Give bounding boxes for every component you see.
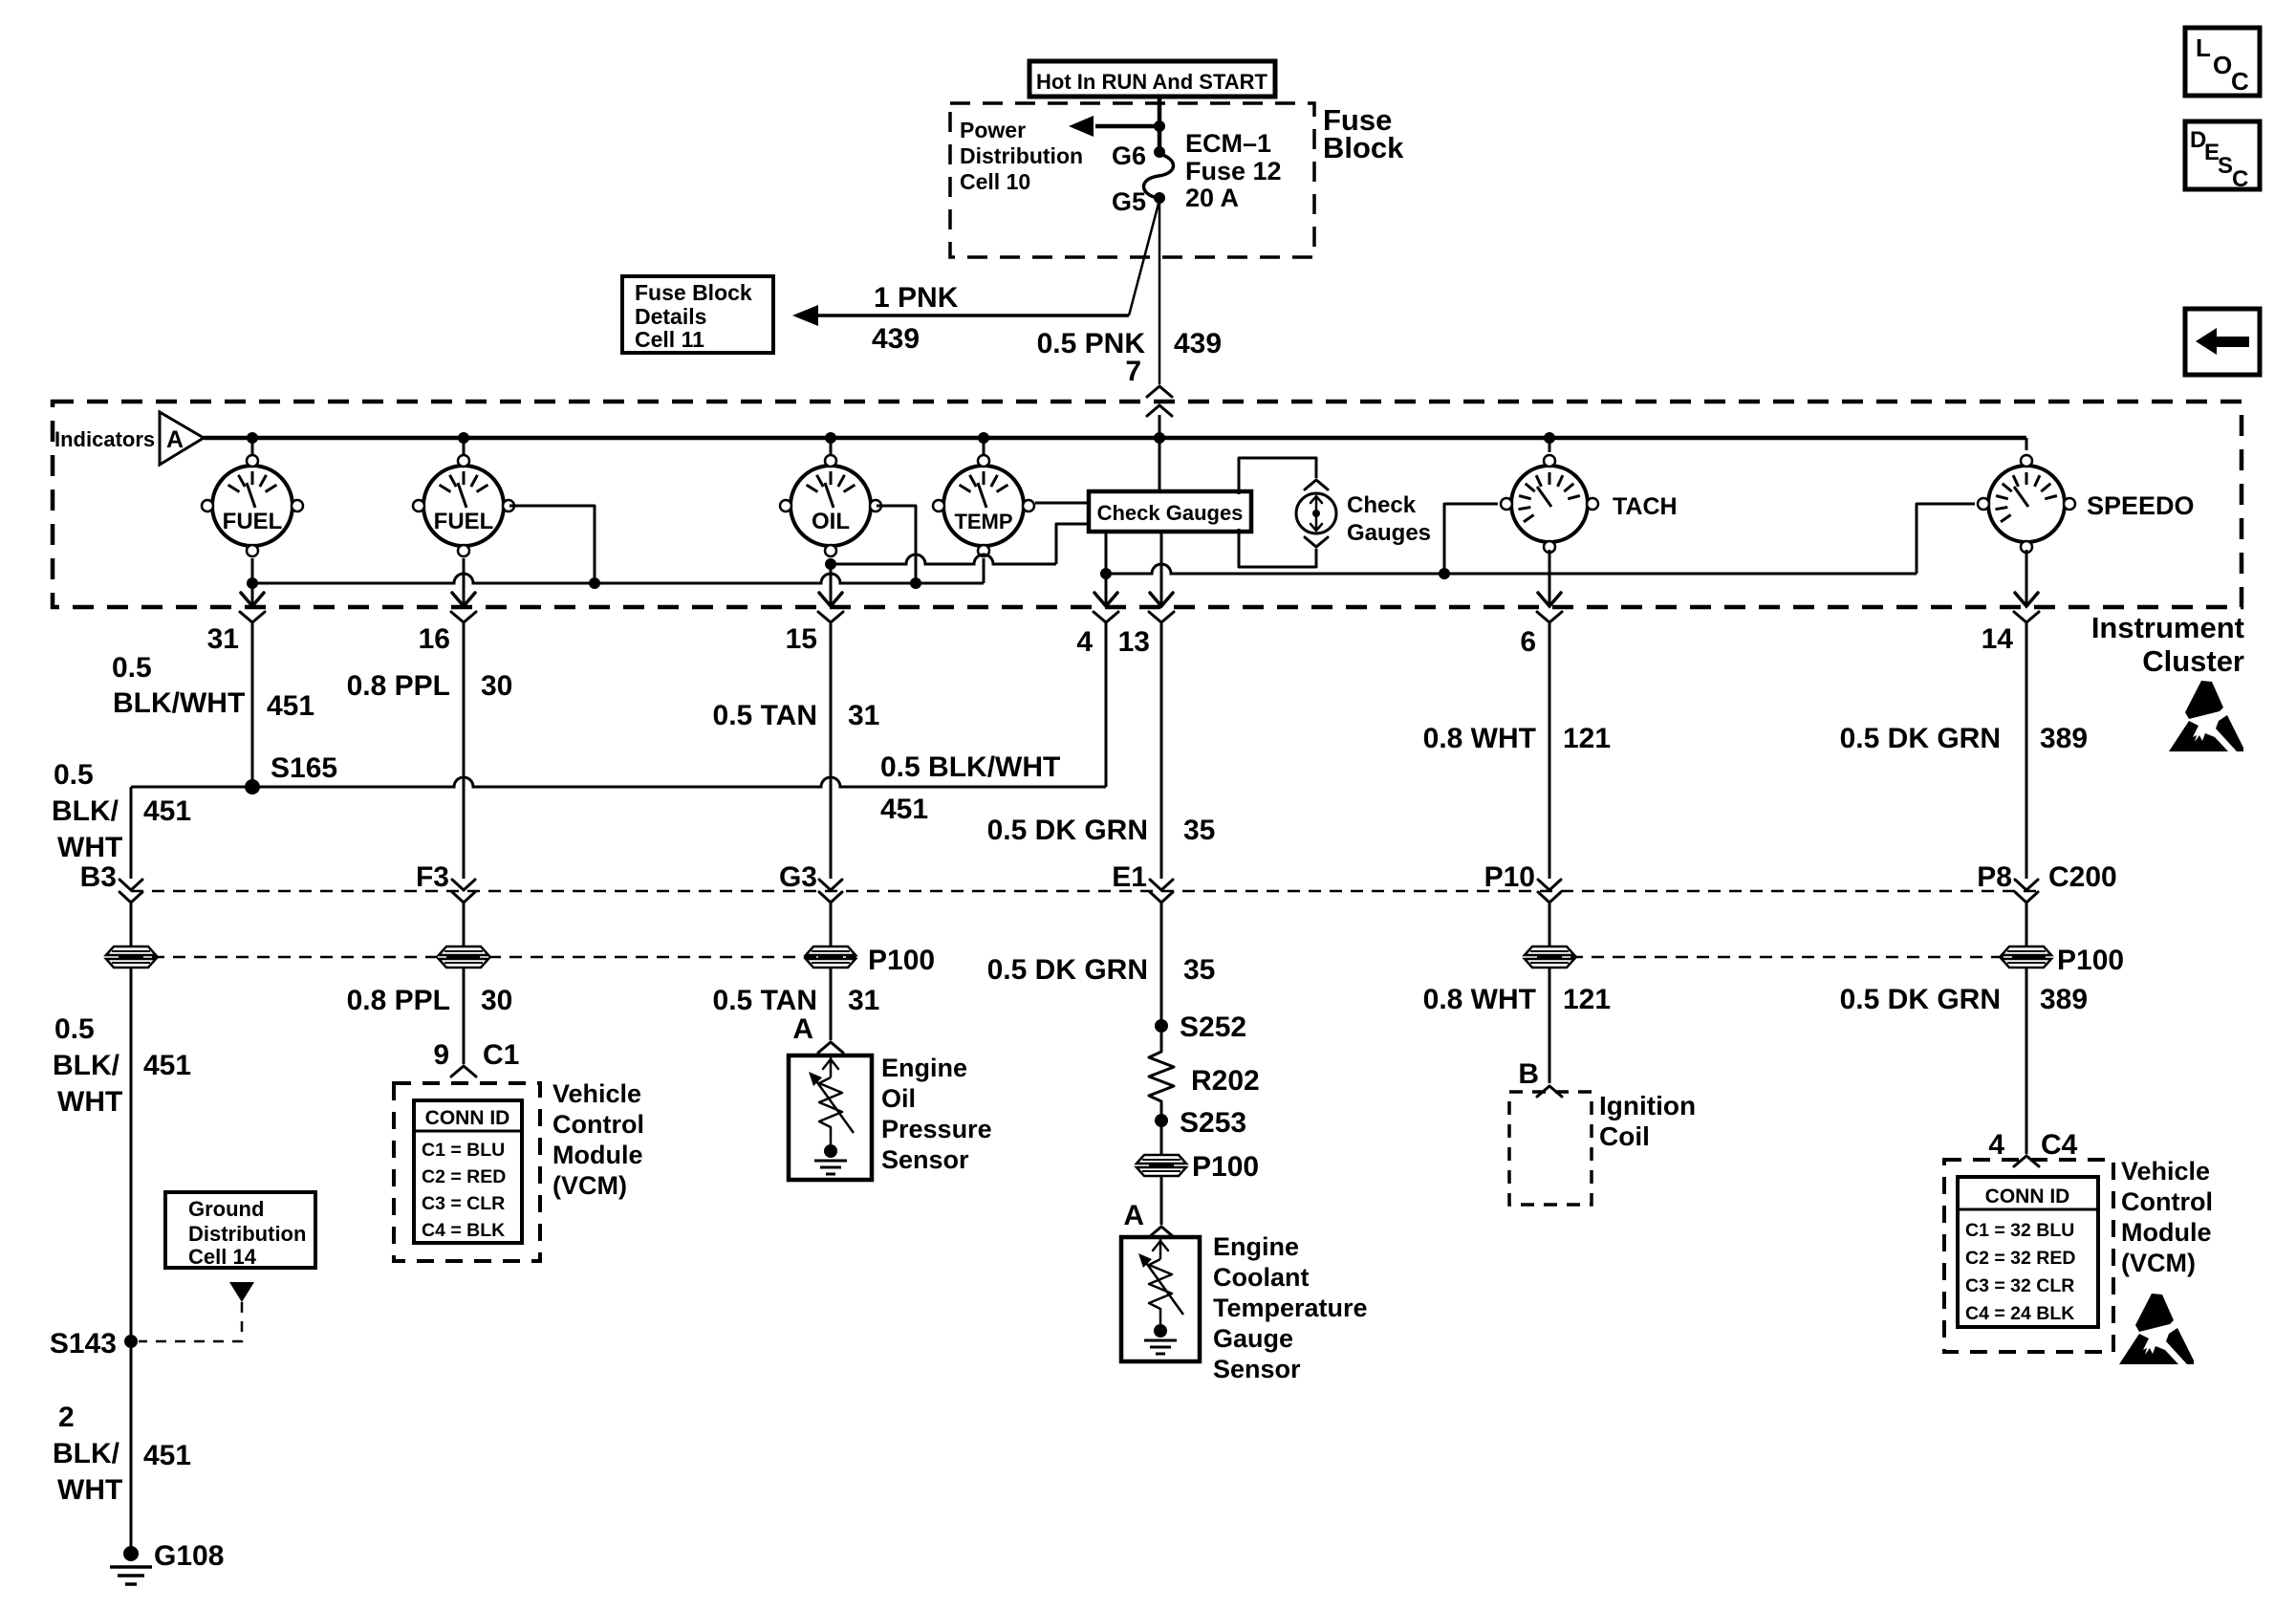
wire stub bus to TACH [1549,438,1551,452]
chevron into oil sensor [818,1042,843,1053]
icon ESD warning (VCM) [2119,1294,2194,1364]
svg-text:E1: E1 [1112,861,1147,893]
pin 4 exit [1076,593,1118,658]
connector C200 pin F3 [452,880,475,903]
svg-text:0.5 TAN: 0.5 TAN [713,700,817,731]
label Check Gauges (lamp) [1347,492,1431,546]
svg-text:C3 = 32 CLR: C3 = 32 CLR [1965,1275,2074,1296]
svg-text:Ground: Ground [188,1197,264,1221]
resistor R202 [1149,1048,1260,1105]
wire hot feed into fuse block [1158,96,1162,152]
label E1 [1112,861,1147,893]
connector C200 pin G3 [819,880,842,903]
wire TACH left stub [1444,504,1498,574]
svg-text:WHT: WHT [57,1086,122,1118]
chevron into VCM C1 [451,1066,476,1077]
wire pin31 to splice [251,623,254,787]
svg-text:G6: G6 [1112,141,1146,170]
label BLK/ (B3 lower) [53,1050,120,1081]
label terminal B (ignition coil) [1518,1058,1539,1090]
instrument cluster dashed outline [53,402,2242,607]
wire check gauges return bus (right) [1106,564,1917,574]
node bus junction TEMP [978,432,989,444]
svg-text:0.5 DK GRN: 0.5 DK GRN [987,815,1148,846]
svg-text:Gauge: Gauge [1213,1324,1293,1353]
node right bus TACH drop [1439,568,1450,579]
label pin 7 [1125,356,1141,387]
svg-text:P8: P8 [1977,861,2012,893]
svg-text:C2 = RED: C2 = RED [422,1166,506,1187]
svg-text:S253: S253 [1180,1107,1246,1139]
chevron lamp bottom [1305,537,1328,547]
connector P100 at B3 column [106,946,156,968]
label 0.5 TAN (upper) [713,700,817,731]
wire pin16 column upper [463,623,466,879]
svg-text:Power: Power [960,118,1026,142]
sensor box engine coolant temperature [1121,1237,1200,1361]
svg-text:Check: Check [1347,492,1417,518]
svg-text:0.8 PPL: 0.8 PPL [347,985,450,1016]
gauge TEMP [933,455,1034,556]
svg-text:35: 35 [1183,815,1215,846]
svg-text:4: 4 [1988,1129,2004,1161]
label 439 (1 PNK) [872,323,920,355]
connector C200 pin E1 [1150,880,1173,903]
node splice S165 [245,752,337,794]
connector P100 at F3 column [439,946,488,968]
svg-text:Block: Block [1323,131,1404,164]
label 0.5 DK GRN (upper P8) [1840,723,2001,754]
svg-text:Instrument: Instrument [2091,611,2244,644]
svg-text:TACH: TACH [1613,493,1678,520]
svg-text:0.5: 0.5 [54,759,94,791]
svg-text:Module: Module [2121,1218,2212,1247]
label terminal A (oil sensor) [792,1013,813,1045]
svg-text:30: 30 [481,985,512,1016]
label 0.5 (B3 lower) [54,1013,95,1045]
svg-text:0.8 WHT: 0.8 WHT [1423,723,1536,754]
label 30 (upper) [481,670,512,702]
connector C200 pin P10 [1538,880,1561,903]
node return bus FUEL1 [247,577,258,589]
wire check gauges lamp bracket top [1239,458,1316,494]
connector C200 dashed row [131,890,2037,893]
label Ignition Coil [1599,1091,1696,1151]
ground (oil sensor) [814,1144,847,1174]
dashed link to S143 [139,1302,242,1341]
svg-text:Sensor: Sensor [1213,1355,1301,1383]
node bus junction FUEL2 [458,432,469,444]
svg-text:Gauges: Gauges [1347,520,1431,546]
label 451 (left drop) [143,795,191,827]
label Vehicle Control Module VCM (left) [552,1079,644,1200]
wire check gauges lamp bracket bottom [1239,529,1316,567]
wire stub bus to FUEL2 [463,438,466,455]
svg-text:Module: Module [552,1141,643,1169]
svg-text:L: L [2196,33,2211,62]
label 0.8 PPL (upper) [347,670,450,702]
svg-text:TEMP: TEMP [954,510,1012,533]
node splice S252 [1155,1012,1246,1043]
wire gauge return bus (left) [252,558,984,583]
label 35 (lower E1) [1183,954,1215,986]
connector P100 at P8 column [2002,945,2124,976]
svg-text:0.5 DK GRN: 0.5 DK GRN [1840,723,2001,754]
icon box DESC [2185,121,2260,192]
label ECM-1 Fuse 12 20 A [1185,129,1282,212]
svg-text:S165: S165 [271,752,337,784]
label Engine Oil Pressure Sensor [881,1054,992,1174]
label terminal A (coolant sensor) [1123,1200,1144,1231]
label 389 (upper P8) [2040,723,2088,754]
svg-text:0.5 BLK/WHT: 0.5 BLK/WHT [880,751,1060,783]
svg-text:0.5: 0.5 [112,652,152,684]
node bus junction OIL [825,432,836,444]
connector C200 pin B3 [119,880,142,903]
label BLK/ (ground wire) [53,1438,120,1469]
svg-text:439: 439 [1174,328,1222,359]
fuse F12 element [1144,154,1174,198]
svg-text:(VCM): (VCM) [2121,1249,2196,1277]
wire F3 column mid [463,903,466,946]
pin 13 exit [1118,593,1174,658]
wire stub bus to FUEL1 [251,438,254,455]
svg-text:451: 451 [143,795,191,827]
wire pin14 column upper [2025,623,2028,879]
label 0.8 WHT (lower) [1423,984,1536,1015]
svg-text:Distribution: Distribution [960,143,1083,168]
splice S165 wire [131,777,1106,879]
label P8 [1977,861,2012,893]
wire TEMP right to check gauges box [1035,502,1089,505]
wire OIL right terminal drop [877,506,916,583]
wire P8 column lower [2025,968,2028,1154]
label 451 (splice feed) [880,794,928,825]
svg-text:Cell 14: Cell 14 [188,1245,257,1269]
pin 6 exit [1520,593,1562,658]
wire 1 PNK with arrow to fuse block details [792,200,1159,326]
table CONN ID (left) [414,1100,522,1243]
svg-text:2: 2 [58,1402,75,1433]
svg-text:0.8 PPL: 0.8 PPL [347,670,450,702]
svg-text:451: 451 [267,690,314,722]
svg-text:Vehicle: Vehicle [2121,1157,2210,1186]
label 451 (B3 lower) [143,1050,191,1081]
indicator lamp check gauges [1296,493,1336,533]
wire OIL bottom drop [830,558,833,606]
label Indicators [54,427,155,451]
svg-text:A: A [792,1013,813,1045]
svg-text:121: 121 [1563,723,1611,754]
svg-text:Vehicle: Vehicle [552,1079,641,1108]
svg-text:35: 35 [1183,954,1215,986]
label connector C1 [483,1039,519,1071]
label 0.5 (left drop) [54,759,94,791]
sensor box engine oil pressure [789,1055,872,1180]
label Engine Coolant Temperature Gauge Sensor [1213,1232,1368,1383]
svg-text:Control: Control [552,1110,644,1139]
node right bus pin4 [1100,568,1112,579]
svg-text:6: 6 [1520,626,1536,658]
wire FUEL1 bottom drop [251,558,254,606]
svg-text:4: 4 [1076,626,1093,658]
svg-text:BLK/: BLK/ [53,1050,120,1081]
svg-text:0.5: 0.5 [54,1013,95,1045]
svg-text:BLK/WHT: BLK/WHT [113,687,245,719]
label 451 (ground wire) [143,1440,191,1471]
svg-text:Cell 11: Cell 11 [635,327,704,352]
label WHT (B3 lower) [57,1086,122,1118]
ground (coolant sensor) [1144,1324,1177,1354]
label 0.5 DK GRN (lower E1) [987,954,1148,986]
svg-text:Engine: Engine [881,1054,967,1082]
svg-text:Coolant: Coolant [1213,1263,1310,1292]
svg-text:WHT: WHT [57,832,122,863]
variable resistor (coolant sensor) [1138,1237,1183,1324]
connector P100 at P10 column [1525,946,1574,968]
ground distribution pointer triangle [229,1282,254,1302]
wire indicator bus [204,438,2026,450]
svg-text:Control: Control [2121,1187,2213,1216]
svg-text:P10: P10 [1484,861,1535,893]
label 389 (lower P8) [2040,984,2088,1015]
label 0.8 WHT (upper) [1423,723,1536,754]
svg-text:1 PNK: 1 PNK [874,282,959,314]
svg-text:14: 14 [1982,623,2014,655]
svg-text:Indicators: Indicators [54,427,155,451]
label 0.5 TAN (lower) [713,985,817,1016]
wire 0.5 PNK [1159,200,1161,384]
wire below S253 [1160,1105,1163,1155]
svg-text:S143: S143 [50,1328,117,1360]
indicator box Check Gauges [1089,491,1251,532]
wire 439 through cluster [1159,415,1161,491]
icon ESD warning (instrument cluster) [2169,681,2243,751]
svg-text:BLK/: BLK/ [52,795,119,827]
svg-text:A: A [166,426,184,453]
node bus junction FUEL1 [247,432,258,444]
pin 16 exit [419,593,476,655]
svg-text:Details: Details [635,304,706,329]
junction box Hot In RUN And START [1029,61,1275,97]
wire stub bus to TEMP [983,438,986,455]
chevron wire 439 into cluster [1147,386,1172,416]
node line A at OIL bottom [825,558,836,570]
svg-text:439: 439 [872,323,920,355]
label 0.5 DK GRN (lower P8) [1840,984,2001,1015]
svg-text:Hot In RUN And START: Hot In RUN And START [1036,70,1268,94]
svg-text:C200: C200 [2048,861,2117,893]
wire pin4 to splice wire [1105,623,1108,787]
label G3 [779,861,817,893]
chevron into ignition coil [1537,1086,1562,1097]
wire TACH bottom drop [1549,550,1551,606]
label 0.5 (pin31 wire) [112,652,152,684]
svg-text:451: 451 [143,1440,191,1471]
node hot feed junction [1154,120,1165,132]
svg-text:Ignition: Ignition [1599,1091,1696,1120]
connector P100 at G3 column [806,945,935,976]
wire pin15 column upper [830,623,833,879]
svg-text:15: 15 [786,623,817,655]
wire P10 column mid [1549,903,1551,946]
svg-text:C1 = 32 BLU: C1 = 32 BLU [1965,1220,2074,1241]
chevron into coolant sensor [1149,1227,1174,1237]
gauge FUEL (second) [413,455,514,556]
svg-text:30: 30 [481,670,512,702]
wire check gauges box pin4 drop [1105,532,1108,606]
svg-text:Oil: Oil [881,1084,916,1113]
label 30 (lower) [481,985,512,1016]
wire SPEEDO bottom drop [2025,550,2028,606]
label 1 PNK [874,282,959,314]
label Instrument Cluster [2091,611,2244,678]
node return bus OIL drop [910,577,921,589]
connector P100 dashed row right [1549,956,2051,959]
label B3 [80,861,117,893]
label pin 9 (VCM C1) [433,1039,449,1071]
svg-text:A: A [1123,1200,1144,1231]
svg-text:FUEL: FUEL [434,509,494,534]
wire E1 column mid [1160,903,1163,1048]
svg-text:121: 121 [1563,984,1611,1015]
ground G108 [110,1540,224,1584]
terminal G6 [1112,141,1165,170]
label 0.5 DK GRN (upper E1) [987,815,1148,846]
label WHT (ground wire) [57,1474,122,1506]
wire G3 column lower [830,968,833,1040]
wire P8 column mid [2025,903,2028,946]
label pin 4 (VCM C4) [1988,1129,2004,1161]
connector P100 dashed row left [131,956,856,959]
icon box LOC [2185,28,2260,96]
svg-text:Distribution: Distribution [188,1222,306,1246]
wire SPEEDO left stub [1917,504,1975,574]
svg-text:13: 13 [1118,626,1150,658]
wire pin13 column upper [1160,623,1163,879]
svg-text:G3: G3 [779,861,817,893]
svg-text:OIL: OIL [812,509,850,534]
svg-text:Fuse 12: Fuse 12 [1185,157,1282,185]
svg-text:ECM–1: ECM–1 [1185,129,1271,158]
svg-text:Cell 10: Cell 10 [960,169,1030,194]
label Vehicle Control Module VCM (right) [2121,1157,2213,1277]
svg-text:C4: C4 [2041,1129,2078,1161]
svg-text:7: 7 [1125,356,1141,387]
svg-text:P100: P100 [2057,945,2124,976]
svg-text:P100: P100 [868,945,935,976]
svg-text:BLK/: BLK/ [53,1438,120,1469]
label 0.5 BLK/WHT (splice feed) [880,751,1060,783]
svg-text:0.8 WHT: 0.8 WHT [1423,984,1536,1015]
svg-text:Temperature: Temperature [1213,1294,1368,1322]
svg-text:0.5 DK GRN: 0.5 DK GRN [987,954,1148,986]
svg-text:C1: C1 [483,1039,519,1071]
label 121 (lower) [1563,984,1611,1015]
svg-text:CONN ID: CONN ID [425,1107,510,1129]
svg-text:G108: G108 [154,1540,224,1572]
label BLK/ (left drop) [52,795,119,827]
fuse block dashed outline [950,103,1314,257]
wire B3 column lower [130,968,133,1554]
svg-text:FUEL: FUEL [223,509,283,534]
svg-text:F3: F3 [416,861,449,893]
svg-text:16: 16 [419,623,450,655]
svg-text:G5: G5 [1112,187,1146,216]
svg-text:Sensor: Sensor [881,1145,969,1174]
wire FUEL2 bottom drop [463,558,466,606]
label Power Distribution Cell 10 [960,118,1083,194]
table CONN ID (right) [1958,1177,2098,1327]
svg-text:C: C [2232,166,2248,192]
icon box back arrow [2185,309,2260,375]
connector P100 inline (coolant) [1137,1151,1259,1183]
svg-text:9: 9 [433,1039,449,1071]
label Fuse Block [1323,103,1404,164]
junction box Fuse Block Details Cell 11 [622,276,773,353]
wire F3 column lower [463,968,466,1064]
svg-text:WHT: WHT [57,1474,122,1506]
module VCM dashed outline (right) [1944,1160,2113,1352]
svg-text:C2 = 32 RED: C2 = 32 RED [1965,1248,2075,1269]
svg-text:C4 = BLK: C4 = BLK [422,1220,505,1241]
pin 14 exit [1982,593,2039,655]
wire into coolant sensor [1160,1176,1163,1225]
svg-text:(VCM): (VCM) [552,1171,627,1200]
svg-text:R202: R202 [1191,1065,1260,1097]
wire P10 column lower [1549,968,1551,1083]
label 439 (0.5 PNK) [1174,328,1222,359]
svg-text:31: 31 [848,985,879,1016]
wire B3 column mid [130,903,133,946]
terminal G5 [1112,187,1165,216]
label 35 (upper E1) [1183,815,1215,846]
svg-text:451: 451 [143,1050,191,1081]
label connector C4 [2041,1129,2078,1161]
svg-text:389: 389 [2040,984,2088,1015]
wire G3 column mid [830,903,833,946]
label 451 (pin31 wire) [267,690,314,722]
svg-text:0.5 DK GRN: 0.5 DK GRN [1840,984,2001,1015]
gauge OIL [780,455,881,556]
label C200 [2048,861,2117,893]
svg-text:C3 = CLR: C3 = CLR [422,1193,505,1214]
svg-text:C4 = 24 BLK: C4 = 24 BLK [1965,1303,2074,1324]
svg-text:0.5 TAN: 0.5 TAN [713,985,817,1016]
node bus junction PNK feed [1154,432,1165,444]
node bus junction TACH [1544,432,1555,444]
svg-text:Pressure: Pressure [881,1115,992,1143]
buffer triangle A (indicators feed) [160,412,204,465]
wire check gauges box pin13 drop [1160,532,1163,606]
pin 31 exit [207,593,265,655]
wire to power distribution with arrow [1069,116,1159,137]
junction box Ground Distribution Cell 14 [165,1192,315,1269]
svg-text:CONN ID: CONN ID [1985,1186,2070,1207]
label BLK/WHT (pin31 wire) [113,687,245,719]
svg-text:S: S [2218,153,2233,179]
label F3 [416,861,449,893]
label WHT (left drop) [57,832,122,863]
label 0.5 PNK [1037,328,1146,359]
wire stub bus to OIL [830,438,833,455]
svg-text:Fuse Block: Fuse Block [635,280,752,305]
wire FUEL2 right terminal drop [509,506,595,583]
svg-text:20 A: 20 A [1185,184,1239,212]
variable resistor (oil sensor) [809,1055,854,1144]
svg-text:451: 451 [880,794,928,825]
svg-text:S252: S252 [1180,1012,1246,1043]
